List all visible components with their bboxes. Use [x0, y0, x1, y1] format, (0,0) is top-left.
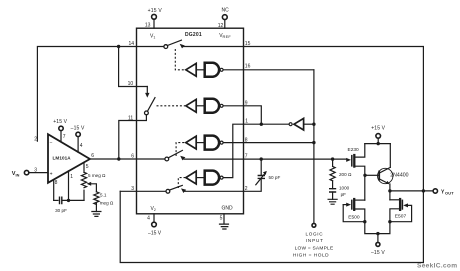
svg-text:13: 13 — [145, 22, 151, 28]
svg-text:4: 4 — [147, 215, 150, 221]
svg-text:meg Ω: meg Ω — [100, 200, 114, 205]
svg-text:INPUT: INPUT — [306, 238, 324, 243]
svg-text:VREF: VREF — [219, 33, 231, 39]
svg-text:5 meg Ω: 5 meg Ω — [88, 173, 106, 178]
svg-text:12: 12 — [218, 23, 224, 29]
svg-text:5: 5 — [86, 164, 89, 170]
svg-text:2: 2 — [34, 137, 37, 143]
svg-text:LM101A: LM101A — [53, 155, 72, 160]
svg-text:E500: E500 — [348, 214, 360, 220]
svg-text:pF: pF — [341, 192, 347, 197]
svg-text:NC: NC — [221, 7, 229, 13]
svg-text:LOGIC: LOGIC — [306, 232, 324, 237]
svg-text:8: 8 — [55, 180, 58, 186]
svg-text:5: 5 — [220, 215, 223, 221]
svg-text:+15 V: +15 V — [148, 8, 163, 14]
svg-text:4: 4 — [80, 143, 83, 149]
svg-text:+: + — [50, 172, 53, 178]
svg-text:+15 V: +15 V — [371, 126, 385, 132]
svg-text:OUT: OUT — [445, 191, 454, 196]
svg-text:–15 V: –15 V — [148, 231, 162, 237]
svg-text:2N4400: 2N4400 — [390, 173, 408, 179]
svg-text:DG201: DG201 — [185, 32, 202, 38]
svg-text:–15 V: –15 V — [371, 250, 385, 256]
svg-text:30 pF: 30 pF — [55, 208, 67, 213]
svg-text:1: 1 — [70, 174, 73, 180]
svg-text:SeekIC.com: SeekIC.com — [417, 262, 457, 269]
svg-text:5.1: 5.1 — [100, 192, 107, 197]
svg-text:E507: E507 — [395, 214, 407, 220]
svg-text:HIGH = HOLD: HIGH = HOLD — [293, 252, 329, 258]
svg-text:E230: E230 — [348, 147, 360, 153]
svg-text:+15 V: +15 V — [53, 119, 67, 125]
svg-text:50 pF: 50 pF — [269, 175, 281, 180]
svg-text:16: 16 — [245, 64, 251, 70]
svg-text:–15 V: –15 V — [71, 125, 85, 131]
svg-text:6: 6 — [91, 153, 94, 159]
svg-text:1000: 1000 — [339, 185, 350, 190]
svg-text:7: 7 — [63, 134, 66, 140]
svg-text:GND: GND — [222, 205, 234, 211]
svg-text:200 Ω: 200 Ω — [339, 172, 352, 177]
svg-text:LOW = SAMPLE: LOW = SAMPLE — [295, 246, 334, 252]
svg-text:−: − — [50, 140, 53, 146]
